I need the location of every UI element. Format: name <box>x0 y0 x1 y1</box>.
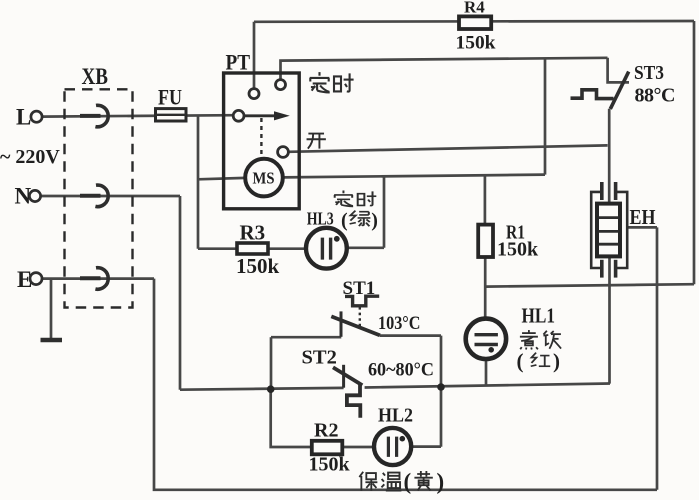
svg-text:88°C: 88°C <box>635 85 675 107</box>
svg-text:150k: 150k <box>456 33 497 53</box>
svg-text:): ) <box>371 210 378 232</box>
svg-text:150k: 150k <box>497 239 539 261</box>
svg-text:XB: XB <box>82 64 109 89</box>
svg-text:ST1: ST1 <box>343 278 376 299</box>
svg-text:(: ( <box>341 210 348 232</box>
svg-text:FU: FU <box>158 85 182 110</box>
svg-text:N: N <box>15 184 32 209</box>
svg-text:(: ( <box>517 349 524 373</box>
svg-text:PT: PT <box>226 50 251 75</box>
svg-text:R2: R2 <box>314 420 338 442</box>
svg-text:ST3: ST3 <box>634 63 664 84</box>
svg-text:E: E <box>17 267 32 292</box>
svg-text:HL3: HL3 <box>307 209 334 229</box>
svg-text:EH: EH <box>630 205 656 229</box>
svg-text:R4: R4 <box>464 0 485 17</box>
svg-text:): ) <box>553 349 560 373</box>
svg-text:103°C: 103°C <box>378 314 421 334</box>
svg-text:R3: R3 <box>240 221 266 245</box>
svg-text:ST2: ST2 <box>302 347 337 369</box>
svg-text:HL1: HL1 <box>522 304 556 328</box>
svg-text:L: L <box>16 105 31 130</box>
svg-text:(: ( <box>404 469 412 494</box>
svg-text:): ) <box>437 469 445 494</box>
svg-text:150k: 150k <box>236 254 280 278</box>
svg-text:150k: 150k <box>309 454 351 476</box>
svg-text:60~80°C: 60~80°C <box>368 361 434 381</box>
svg-text:HL2: HL2 <box>378 405 413 427</box>
svg-text:MS: MS <box>253 169 275 188</box>
svg-text:~ 220V: ~ 220V <box>0 146 60 168</box>
